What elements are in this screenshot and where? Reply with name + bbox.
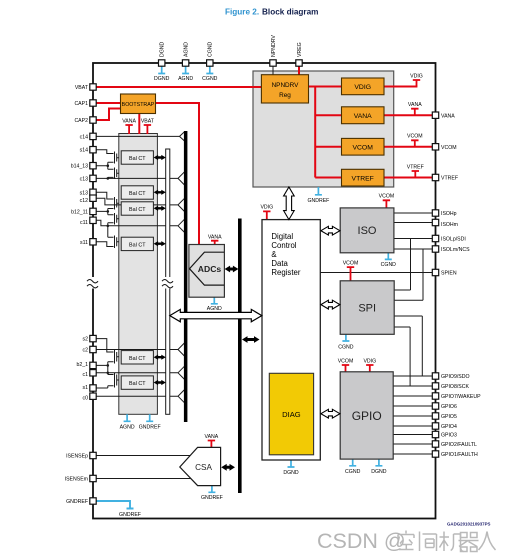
svg-text:VTREF: VTREF	[441, 176, 458, 182]
break squiggle on narrow bus	[162, 277, 175, 289]
ground GNDREF below stack	[139, 414, 161, 430]
wire GPIO3	[393, 434, 432, 436]
svg-text:ISOLm/NCS: ISOLm/NCS	[441, 247, 470, 253]
svg-text:VANA: VANA	[205, 434, 219, 440]
wire bootstrap to stack	[138, 114, 140, 135]
svg-text:VANA: VANA	[408, 102, 422, 108]
pin CAP1	[74, 100, 96, 107]
pin c13	[80, 175, 97, 182]
svg-text:CAP1: CAP1	[74, 101, 88, 107]
svg-text:c14: c14	[80, 134, 88, 140]
svg-text:GPIO4: GPIO4	[441, 424, 457, 430]
svg-text:NPNDRV: NPNDRV	[272, 82, 300, 89]
svg-text:VCOM: VCOM	[343, 260, 359, 266]
regulator VTREF block	[342, 169, 385, 186]
svg-text:GPIO3: GPIO3	[441, 433, 457, 439]
junction dot c13	[107, 177, 110, 180]
svg-text:AGND: AGND	[120, 425, 135, 431]
svg-text:VANA: VANA	[354, 113, 372, 120]
ground DGND below digital box	[283, 460, 299, 476]
Bal CT cell transfer block 5	[121, 351, 153, 364]
svg-text:NPNDRV: NPNDRV	[271, 35, 277, 57]
arrow DIAG to GPIO (hollow)	[321, 409, 340, 418]
wire c0 sense line fork into left bus bar	[96, 390, 185, 403]
svg-text:VBAT: VBAT	[75, 85, 89, 91]
ground DGND below top pin	[154, 66, 170, 82]
wire c14 sense line to left bus bar	[96, 132, 185, 141]
svg-text:VANA: VANA	[208, 235, 222, 241]
svg-text:GNDREF: GNDREF	[139, 425, 161, 431]
figure title	[225, 8, 318, 17]
arrow Bal CT 6 to sense bus	[154, 380, 166, 385]
ground AGND below ADCs	[207, 297, 222, 312]
svg-text:CGND: CGND	[381, 262, 397, 268]
svg-text:c2: c2	[83, 348, 89, 354]
wire SPIEN from digital box to pin	[320, 272, 432, 274]
transistor Q1 balancing FET	[96, 373, 119, 389]
wire GPIO6	[393, 405, 432, 407]
supply flag VCOM above ISO	[379, 194, 395, 208]
SPI block	[340, 281, 394, 335]
svg-text:Register: Register	[271, 268, 300, 277]
svg-text:Block diagram: Block diagram	[262, 8, 318, 17]
wire VCOM output to pin	[384, 146, 432, 148]
svg-text:b12_11: b12_11	[71, 209, 88, 215]
svg-text:GPIO9/SDO: GPIO9/SDO	[441, 374, 470, 380]
wire GPIO8/SCK	[393, 385, 432, 387]
pin GPIO2/FAULTL (right)	[432, 441, 477, 448]
pin ISOLp/SDI (right)	[432, 235, 465, 242]
balancing sense narrow bus	[166, 149, 170, 414]
ADCs block	[189, 245, 225, 298]
arrow digital to ISO (hollow)	[321, 226, 340, 235]
svg-text:AGND: AGND	[207, 306, 222, 312]
arrow digital to SPI (hollow)	[321, 300, 340, 309]
wire GPIO7/WAKEUP	[393, 395, 432, 397]
pin ISENSEp	[66, 452, 96, 459]
svg-text:s13: s13	[80, 190, 88, 196]
pin ISENSEm	[65, 475, 97, 482]
supply flag VDIG at regulator output	[410, 73, 423, 86]
pin s1	[83, 385, 97, 391]
pin GPIO1/FAULTH (right)	[432, 451, 478, 458]
svg-text:CGND: CGND	[208, 41, 214, 57]
DIAG block	[269, 373, 313, 455]
svg-text:VCOM: VCOM	[407, 134, 423, 140]
svg-text:CSDN @: CSDN @	[317, 529, 406, 553]
svg-text:c1: c1	[83, 372, 89, 378]
svg-text:VDIG: VDIG	[354, 84, 371, 91]
svg-text:Bal CT: Bal CT	[129, 156, 146, 162]
supply flag VCOM above GPIO	[338, 358, 354, 372]
pin c0	[83, 393, 97, 401]
junction dot b14_13	[107, 164, 110, 167]
svg-text:s11: s11	[80, 240, 88, 246]
ground GNDREF below regulator block	[307, 187, 329, 204]
svg-text:c13: c13	[80, 176, 88, 182]
pin GPIO5 (right)	[432, 413, 457, 420]
wire ISOHp	[394, 212, 433, 214]
arrow Bal CT 1 to sense bus	[154, 155, 166, 160]
supply flag VANA at regulator output	[408, 102, 422, 115]
Bal CT cell transfer block 3	[121, 202, 153, 215]
svg-text:Bal CT: Bal CT	[129, 242, 146, 248]
pin b2_1	[76, 362, 96, 369]
svg-text:Bal CT: Bal CT	[129, 381, 146, 387]
arrow cell sense bus to digital box (wide hollow)	[170, 309, 262, 321]
pin CAP2	[74, 117, 96, 124]
svg-text:b2_1: b2_1	[76, 362, 88, 368]
transistor Q2 balancing FET	[115, 350, 119, 364]
wire VREG pin stem	[298, 66, 300, 76]
pin VANA (right)	[432, 112, 455, 119]
svg-text:DGND: DGND	[154, 76, 170, 82]
svg-text:GNDREF: GNDREF	[307, 198, 329, 204]
svg-text:VDIG: VDIG	[410, 73, 423, 79]
CSA block	[180, 447, 221, 485]
wire ISENSEm to CSA	[96, 478, 191, 480]
ground AGND below stack	[120, 414, 135, 430]
supply flag VCOM at regulator output	[407, 134, 423, 147]
pin GNDREF	[66, 498, 96, 505]
svg-text:Bal CT: Bal CT	[129, 356, 146, 362]
svg-text:c12: c12	[80, 198, 88, 204]
svg-text:GPIO7/WAKEUP: GPIO7/WAKEUP	[441, 394, 481, 400]
watermark CSDN	[317, 529, 496, 553]
ground CGND below top pin	[202, 66, 218, 82]
wire NPNDRV pin stem	[272, 66, 274, 75]
supply flag VCOM above SPI	[343, 260, 359, 280]
svg-text:DGND: DGND	[283, 470, 299, 476]
pin b12_11	[71, 208, 96, 215]
pin VCOM (right)	[432, 144, 456, 151]
pin ISOLm/NCS (right)	[432, 246, 470, 253]
pin GPIO9/SDO (right)	[432, 373, 469, 380]
wire NPNDRV to regulators rail	[309, 87, 342, 178]
arrow CSA to data bus	[221, 464, 235, 471]
Bal CT cell transfer block 1	[121, 151, 153, 164]
wire SPI SCK routing to GPIO8 pin	[394, 327, 410, 386]
svg-text:&: &	[271, 250, 277, 259]
wire c12 sense line jog and fork into left bus bar	[96, 198, 185, 211]
svg-text:GPIO: GPIO	[352, 409, 382, 423]
wire c13 sense line fork into left bus bar	[96, 172, 185, 185]
arrow Bal CT 4 to sense bus	[154, 241, 166, 246]
svg-text:VTREF: VTREF	[407, 164, 424, 170]
svg-text:DIAG: DIAG	[282, 410, 301, 419]
ground GNDREF below CSA	[201, 486, 223, 502]
svg-text:GPIO2/FAULTL: GPIO2/FAULTL	[441, 442, 477, 448]
svg-text:GPIO5: GPIO5	[441, 414, 457, 420]
arrow regulator block to digital box (hollow vertical)	[284, 187, 295, 220]
svg-text:ADCs: ADCs	[198, 264, 222, 274]
svg-text:Bal CT: Bal CT	[129, 191, 146, 197]
svg-text:CSA: CSA	[195, 463, 212, 472]
supply flag VANA above CSA	[205, 434, 219, 447]
transistor Q11b balancing FET	[115, 236, 119, 249]
transistor Q14 balancing FET	[115, 152, 119, 164]
wire s14 lead	[96, 150, 114, 154]
wire VBAT red rail to NPNDRV	[96, 86, 262, 88]
pin c11	[80, 217, 96, 226]
wire bootstrap output to ADCs	[156, 103, 200, 245]
left measurement bus bar (thick)	[184, 131, 188, 422]
Bal CT cell transfer block 6	[121, 376, 153, 389]
arrow ADCs to data bus	[225, 266, 239, 273]
wire ISOHm	[394, 222, 433, 224]
wire GPIO5	[393, 415, 432, 417]
pin VBAT	[75, 84, 96, 91]
ground CGND below GPIO	[345, 459, 361, 475]
svg-text:GNDREF: GNDREF	[119, 512, 141, 518]
svg-text:AGND: AGND	[178, 76, 193, 82]
pin s11	[80, 239, 96, 246]
svg-text:VCOM: VCOM	[379, 194, 395, 200]
wire CAP1 to bootstrap	[96, 102, 121, 104]
pin AGND (top)	[182, 42, 189, 66]
svg-text:GNDREF: GNDREF	[201, 495, 223, 501]
svg-text:c11: c11	[80, 220, 88, 226]
NPNDRV Reg block	[261, 75, 308, 103]
Bal CT cell transfer block 4	[121, 237, 153, 250]
svg-text:VCOM: VCOM	[338, 358, 354, 364]
regulator VANA block	[342, 107, 385, 124]
pin NPNDRV (top)	[270, 35, 277, 67]
junction dot b2_1	[107, 364, 110, 367]
ground CGND below SPI	[338, 334, 354, 350]
svg-text:CGND: CGND	[202, 76, 218, 82]
svg-text:s1: s1	[83, 385, 89, 391]
wire s11 lead	[96, 226, 114, 247]
pin GPIO8/SCK (right)	[432, 383, 469, 390]
pin GPIO6 (right)	[432, 403, 457, 410]
svg-text:ISENSEm: ISENSEm	[65, 477, 88, 483]
Bal CT stack container	[119, 134, 158, 415]
wire c11 sense line jog and fork into left bus bar	[96, 219, 185, 232]
svg-text:VTREF: VTREF	[352, 175, 374, 182]
pin c12	[80, 195, 97, 204]
Bal CT cell transfer block 2	[121, 186, 153, 199]
supply flag VDIG above digital box	[260, 205, 273, 220]
pin ISOHm (right)	[432, 219, 458, 228]
svg-text:GPIO1/FAULTH: GPIO1/FAULTH	[441, 452, 478, 458]
wire GPIO1/FAULTH	[393, 453, 432, 455]
digital control box	[262, 220, 320, 460]
svg-text:GADG2010210937PS: GADG2010210937PS	[447, 522, 491, 527]
svg-text:s2: s2	[83, 337, 89, 343]
pin VTREF (right)	[432, 174, 458, 181]
wire GPIO9/SDO	[393, 375, 432, 377]
ground DGND below GPIO	[371, 459, 387, 475]
wire VTREF output to pin	[384, 177, 432, 179]
pin SPIEN (right)	[432, 269, 457, 276]
svg-text:GNDREF: GNDREF	[66, 499, 88, 505]
pin s2	[83, 335, 97, 342]
pin VREG (top)	[296, 42, 303, 66]
supply flag VTREF at regulator output	[407, 164, 424, 177]
wire b12_11 lead	[96, 209, 114, 215]
svg-text:VDIG: VDIG	[363, 358, 376, 364]
arrow Bal CT 5 to sense bus	[154, 355, 166, 360]
pin GPIO3 (right)	[432, 431, 457, 438]
ground AGND below top pin	[178, 66, 193, 82]
svg-text:BOOTSTRAP: BOOTSTRAP	[122, 102, 155, 108]
ground CGND below ISO	[381, 253, 397, 268]
svg-text:Digital: Digital	[271, 232, 293, 241]
pin GPIO7/WAKEUP (right)	[432, 393, 481, 400]
pin c1	[83, 370, 97, 378]
supply flag VDIG above GPIO	[363, 358, 376, 372]
svg-text:ISO: ISO	[358, 225, 377, 237]
svg-text:ISENSEp: ISENSEp	[66, 454, 88, 460]
transistor Q11 balancing FET	[108, 213, 119, 226]
regulator VCOM block	[342, 138, 385, 155]
wire GPIO4	[393, 425, 432, 427]
svg-text:DGND: DGND	[160, 41, 166, 57]
transistor Q12 balancing FET	[115, 197, 119, 210]
wire CAP2 to bootstrap	[96, 109, 121, 121]
svg-text:b14_13: b14_13	[71, 164, 88, 170]
svg-text:Reg: Reg	[279, 92, 291, 99]
wire VDIG output	[384, 86, 417, 88]
svg-text:VANA: VANA	[441, 113, 455, 119]
svg-text:CAP2: CAP2	[74, 118, 88, 124]
bootstrap block	[121, 94, 156, 114]
pin c2	[83, 346, 97, 353]
svg-text:Figure 2.: Figure 2.	[225, 8, 259, 17]
pin DGND (top)	[159, 41, 166, 66]
wire SPI SDO routing to GPIO9 pin	[394, 316, 422, 376]
svg-text:VCOM: VCOM	[441, 145, 457, 151]
svg-text:AGND: AGND	[184, 42, 190, 57]
wire b14_13 lead	[96, 162, 114, 169]
pin GPIO4 (right)	[432, 423, 457, 430]
svg-text:s14: s14	[80, 148, 88, 154]
arrow data bus to digital box	[242, 336, 260, 343]
arrow Bal CT 2 to sense bus	[154, 190, 166, 195]
svg-text:Bal CT: Bal CT	[129, 207, 146, 213]
svg-text:Control: Control	[271, 241, 296, 250]
wire s13 lead	[96, 192, 114, 199]
wire ISOLm/NCS with branch to SPI	[394, 249, 433, 300]
GPIO block	[340, 372, 393, 459]
arrow Bal CT 3 to sense bus	[154, 206, 166, 211]
wire GPIO2/FAULTL	[393, 443, 432, 445]
pin c14	[80, 133, 97, 140]
svg-text:DGND: DGND	[371, 469, 387, 475]
transistor Q13 balancing FET	[108, 168, 119, 180]
pin CGND (top)	[207, 41, 214, 66]
supply flag VBAT at stack top	[141, 118, 155, 134]
wire ISOLp/SDI with branch to SPI	[394, 239, 433, 291]
svg-text:GPIO6: GPIO6	[441, 404, 457, 410]
pin ISOHp (right)	[432, 210, 456, 217]
wire ISENSEp to CSA	[96, 455, 190, 457]
wire b2_1 lead	[96, 362, 114, 375]
wire c1 sense line fork into left bus bar	[96, 366, 185, 379]
pin s14	[80, 147, 97, 154]
svg-text:VREG: VREG	[297, 42, 303, 57]
junction dot c11	[107, 225, 110, 228]
ground GNDREF wire from pin	[96, 501, 141, 518]
chip outer border	[93, 63, 436, 519]
junction dot c1	[107, 372, 110, 375]
wire s2 lead	[96, 339, 114, 352]
svg-text:VANA: VANA	[122, 118, 136, 124]
svg-text:VCOM: VCOM	[352, 145, 373, 152]
junction dot b12_11	[107, 210, 110, 213]
regulator VDIG block	[342, 78, 385, 95]
svg-text:CGND: CGND	[345, 469, 361, 475]
svg-text:VDIG: VDIG	[260, 205, 273, 211]
svg-text:SPIEN: SPIEN	[441, 271, 457, 277]
svg-text:VBAT: VBAT	[141, 118, 155, 124]
pin b14_13	[71, 163, 97, 170]
svg-text:c0: c0	[83, 395, 89, 401]
svg-text:ISOLp/SDI: ISOLp/SDI	[441, 237, 466, 243]
svg-text:GPIO8/SCK: GPIO8/SCK	[441, 384, 470, 390]
wire c2 sense line fork into left bus bar	[96, 343, 185, 356]
supply flag VANA above ADCs	[208, 235, 222, 245]
ISO block	[340, 208, 394, 253]
wire VANA output to pin	[384, 114, 432, 116]
voltage regulators block container	[253, 71, 394, 187]
svg-text:Data: Data	[271, 259, 288, 268]
pin s13	[80, 189, 97, 196]
supply flag VANA at stack top	[122, 118, 136, 134]
main data bus bar (thick)	[238, 219, 242, 494]
svg-text:SPI: SPI	[358, 303, 376, 315]
svg-text:ISOHm: ISOHm	[441, 222, 458, 228]
break squiggle on left border	[87, 277, 100, 289]
svg-text:CGND: CGND	[338, 344, 354, 350]
svg-text:ISOHp: ISOHp	[441, 211, 457, 217]
